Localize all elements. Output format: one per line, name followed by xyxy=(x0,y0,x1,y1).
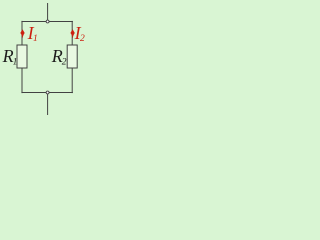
arrow I2 xyxy=(70,29,74,38)
node top junction xyxy=(46,20,49,23)
wire: top horizontal xyxy=(21,21,73,23)
wire: right branch lower xyxy=(71,68,73,93)
background xyxy=(0,0,91,118)
wire: left branch lower xyxy=(21,68,23,93)
wire: top lead xyxy=(47,3,49,22)
wire: left branch upper xyxy=(21,21,23,45)
wire: bottom lead xyxy=(47,93,49,116)
resistor R1 xyxy=(17,45,27,68)
svg-text:1: 1 xyxy=(33,34,38,44)
svg-text:2: 2 xyxy=(62,58,67,68)
svg-text:1: 1 xyxy=(13,58,18,68)
resistor R2 xyxy=(67,45,77,68)
svg-text:2: 2 xyxy=(80,34,85,44)
arrow I1 xyxy=(20,29,24,38)
wire: right branch upper xyxy=(71,21,73,45)
wire: bottom horizontal xyxy=(21,92,73,94)
node bottom junction xyxy=(46,91,49,94)
